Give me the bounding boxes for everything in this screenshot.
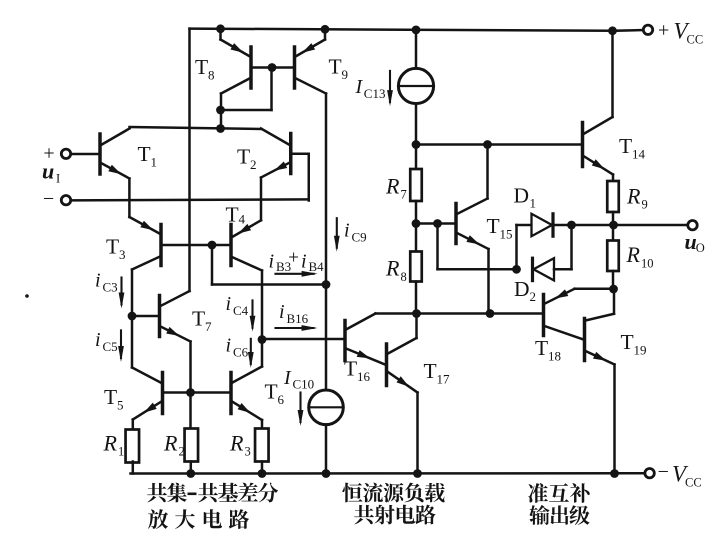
svg-text:i: i: [344, 219, 350, 241]
svg-text:T: T: [424, 359, 437, 383]
svg-text:T: T: [535, 336, 548, 360]
svg-text:7: 7: [401, 188, 407, 202]
svg-text:C4: C4: [233, 303, 249, 318]
svg-text:R: R: [163, 430, 178, 455]
svg-text:T: T: [619, 134, 632, 158]
svg-text:R: R: [626, 242, 641, 267]
svg-text:D: D: [514, 184, 530, 208]
svg-text:O: O: [696, 241, 705, 255]
svg-text:6: 6: [278, 392, 285, 407]
svg-text:3: 3: [119, 247, 126, 262]
svg-text:C13: C13: [364, 86, 386, 101]
svg-text:B4: B4: [309, 259, 325, 274]
svg-text:T: T: [329, 55, 342, 79]
svg-text:8: 8: [208, 68, 215, 83]
svg-text:15: 15: [500, 227, 513, 242]
svg-text:I: I: [355, 76, 364, 98]
svg-text:3: 3: [245, 445, 251, 459]
svg-text:C10: C10: [293, 377, 315, 392]
svg-text:i: i: [95, 329, 101, 351]
svg-text:CC: CC: [687, 33, 704, 47]
svg-text:I: I: [56, 172, 60, 186]
svg-text:T: T: [138, 142, 151, 166]
svg-text:T: T: [265, 380, 278, 404]
svg-text:T: T: [487, 214, 500, 238]
svg-text:−: −: [43, 188, 54, 210]
svg-text:i: i: [95, 270, 101, 292]
svg-text:2: 2: [250, 157, 257, 172]
svg-text:2: 2: [530, 289, 537, 304]
svg-text:C9: C9: [352, 229, 367, 244]
svg-text:T: T: [621, 330, 634, 354]
svg-text:R: R: [385, 256, 400, 281]
svg-text:i: i: [269, 251, 275, 273]
svg-text:8: 8: [401, 270, 407, 284]
svg-text:16: 16: [357, 369, 371, 384]
svg-text:19: 19: [634, 343, 647, 358]
svg-text:1: 1: [151, 155, 158, 170]
svg-text:C6: C6: [233, 344, 249, 359]
svg-text:B16: B16: [287, 311, 309, 326]
svg-text:C3: C3: [103, 280, 118, 295]
svg-text:5: 5: [117, 398, 124, 413]
svg-text:7: 7: [205, 319, 212, 334]
svg-text:I: I: [283, 367, 292, 389]
svg-text:T: T: [192, 307, 205, 331]
svg-text:17: 17: [437, 372, 451, 387]
svg-text:4: 4: [239, 212, 246, 227]
svg-text:CC: CC: [685, 476, 702, 490]
svg-text:R: R: [229, 430, 244, 455]
svg-text:14: 14: [632, 146, 646, 161]
svg-text:9: 9: [342, 67, 349, 82]
svg-text:9: 9: [642, 198, 648, 212]
svg-text:−: −: [658, 461, 669, 483]
svg-text:10: 10: [641, 256, 654, 270]
svg-text:R: R: [103, 430, 118, 455]
svg-text:2: 2: [179, 445, 185, 459]
svg-text:T: T: [106, 234, 119, 258]
svg-text:i: i: [301, 251, 307, 273]
svg-text:T: T: [195, 55, 208, 79]
svg-text:i: i: [226, 293, 232, 315]
svg-text:T: T: [104, 385, 117, 409]
svg-text:D: D: [514, 277, 530, 301]
svg-text:+: +: [288, 248, 299, 269]
svg-text:T: T: [344, 357, 357, 381]
svg-text:18: 18: [548, 349, 561, 364]
svg-text:C5: C5: [103, 339, 118, 354]
svg-text:1: 1: [118, 445, 124, 459]
svg-text:1: 1: [530, 196, 537, 211]
svg-text:+: +: [658, 19, 669, 41]
svg-text:R: R: [626, 183, 641, 208]
svg-text:i: i: [279, 301, 285, 323]
svg-text:R: R: [385, 173, 400, 198]
svg-text:i: i: [226, 334, 232, 356]
svg-text:u: u: [42, 159, 54, 184]
svg-text:T: T: [226, 203, 239, 227]
svg-text:T: T: [237, 145, 250, 169]
